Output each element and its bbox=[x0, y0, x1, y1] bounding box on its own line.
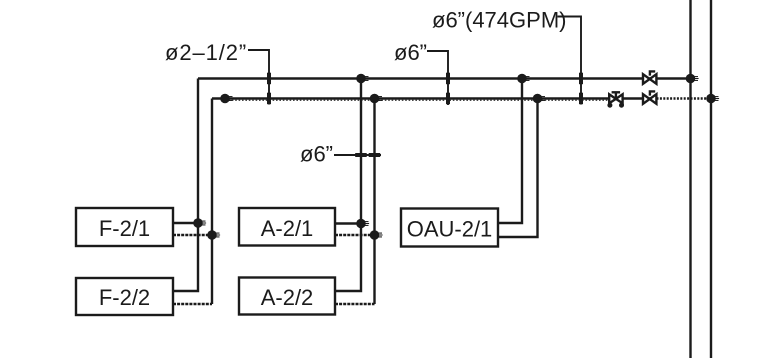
svg-text:ø6”(474GPM): ø6”(474GPM) bbox=[432, 8, 566, 33]
tick 6in leader on supply bbox=[446, 73, 450, 85]
junction dot return main at OAU drop bbox=[533, 94, 546, 104]
tick GPM leader on return bbox=[579, 93, 583, 105]
valve V2 balancing valve on return main bbox=[607, 92, 624, 107]
wire A-2/1 return stub bbox=[335, 234, 375, 236]
wire F return drop bbox=[211, 99, 213, 305]
wire supply main bbox=[198, 77, 691, 79]
wire A-2/1 supply stub bbox=[335, 222, 361, 224]
wire F supply drop bbox=[173, 79, 198, 292]
junction dot return main at riser 2 bbox=[706, 94, 719, 104]
wire A return drop bbox=[373, 99, 375, 305]
wire A-2/2 return stub bbox=[335, 303, 375, 305]
wire return main dotted part bbox=[657, 97, 712, 99]
valve V1 ball valve on supply main bbox=[643, 71, 656, 83]
leader for label 6in GPM bbox=[558, 17, 582, 105]
wire F-2/1 supply stub bbox=[173, 222, 198, 224]
wire riser 1 bbox=[689, 0, 691, 358]
box A-2/2 bbox=[239, 278, 335, 315]
svg-text:F-2/1: F-2/1 bbox=[99, 216, 150, 241]
leader for label 6in top bbox=[427, 51, 448, 105]
svg-text:F-2/2: F-2/2 bbox=[99, 285, 150, 310]
wire return main solid part bbox=[212, 97, 657, 99]
junction dot return main start bbox=[220, 94, 233, 104]
box OAU-2/1 bbox=[401, 209, 498, 247]
tick mid leader on A supply drop bbox=[355, 153, 367, 157]
box F-2/1 bbox=[76, 208, 173, 246]
svg-text:OAU-2/1: OAU-2/1 bbox=[407, 217, 493, 242]
wire return main dotted fringe bbox=[225, 99, 608, 101]
wire OAU supply drop bbox=[498, 79, 522, 224]
junction dot supply main at OAU drop bbox=[517, 74, 530, 84]
svg-text:A-2/1: A-2/1 bbox=[261, 216, 314, 241]
tick GPM leader on supply bbox=[579, 73, 583, 85]
box F-2/2 bbox=[76, 278, 173, 315]
wire F-2/2 return stub bbox=[173, 303, 212, 305]
svg-text:ø6”: ø6” bbox=[300, 142, 333, 167]
wire A supply drop bbox=[335, 79, 361, 292]
svg-text:ø6”: ø6” bbox=[394, 40, 427, 65]
valve V3 ball valve on return main bbox=[643, 91, 656, 103]
junction dot supply main at A drop bbox=[356, 74, 369, 84]
junction dot F-2/1 return bbox=[207, 230, 220, 240]
tick 2-1/2 leader on supply bbox=[267, 73, 271, 85]
leader for label 2-1/2in bbox=[248, 50, 269, 105]
junction dot A-2/1 return bbox=[370, 230, 383, 240]
tick 2-1/2 leader on return bbox=[267, 93, 271, 105]
wire riser 2 bbox=[710, 0, 712, 358]
junction dot return main at A drop bbox=[370, 94, 383, 104]
tick 6in leader on return bbox=[446, 93, 450, 105]
junction dot supply main at riser 1 bbox=[686, 74, 699, 84]
box A-2/1 bbox=[239, 208, 335, 246]
leader for label 6in mid bbox=[334, 154, 381, 156]
junction dot A-2/1 supply bbox=[356, 219, 369, 229]
wire F-2/1 return stub bbox=[173, 234, 212, 236]
tick mid leader on A return drop bbox=[369, 153, 381, 157]
svg-text:ø2–1/2”: ø2–1/2” bbox=[165, 40, 247, 65]
svg-text:A-2/2: A-2/2 bbox=[261, 285, 314, 310]
wire OAU return drop bbox=[498, 99, 538, 238]
junction dot F-2/1 supply bbox=[193, 218, 206, 228]
